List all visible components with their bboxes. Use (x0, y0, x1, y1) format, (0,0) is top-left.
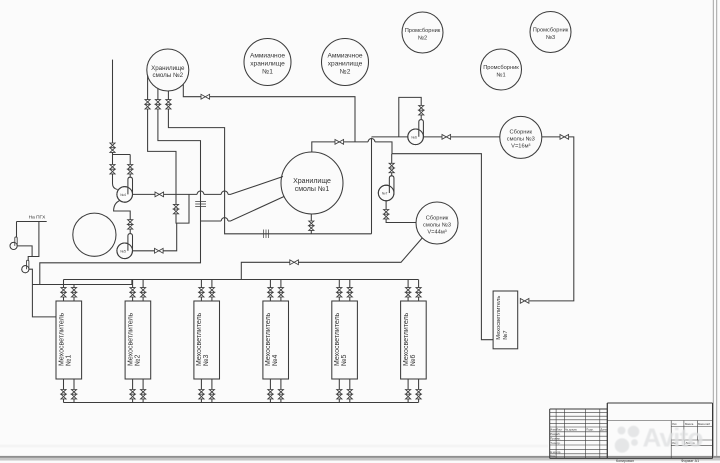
svg-text:Промсборник: Промсборник (405, 28, 441, 34)
valve M5 left bottom (337, 390, 342, 399)
valve on tank V16 outlet (560, 135, 569, 140)
wire: tank2 outlet to vertical x355 (210, 97, 355, 142)
svg-text:V=44м³: V=44м³ (427, 229, 446, 235)
apparatus Мехосветлитель №7 (493, 291, 518, 349)
svg-text:№1: №1 (496, 73, 505, 79)
valve M1 left bottom (61, 390, 66, 399)
wire: M5 left top column (338, 280, 340, 288)
wire: M3 right bottom to bus (211, 399, 213, 403)
wire: L2 horizontal to pump6 (372, 136, 408, 138)
wire: tank2 column2 (157, 89, 159, 100)
valve M1 right top (71, 288, 76, 297)
pump №6 (408, 120, 424, 145)
wire: pump7 discharge to tank V44 (386, 219, 416, 223)
wire: pump5 stem drop (129, 229, 131, 234)
wire: L2 vertical under hop (371, 138, 373, 234)
wire: M1 right top to rect (73, 297, 75, 301)
apparatus Мехосветлитель №1 (56, 301, 82, 379)
valve M1 right bottom (71, 390, 76, 399)
svg-text:№4: №4 (120, 193, 126, 197)
valve M1 left top (61, 288, 66, 297)
svg-text:№ докум.: № докум. (565, 428, 578, 432)
bus: upper distribution header (64, 279, 419, 281)
wire: tank1 top line to y153 (344, 139, 392, 154)
svg-text:Промсборник: Промсборник (533, 28, 569, 34)
valve M2 left top (130, 288, 135, 297)
bus: bottom collection header (64, 402, 419, 404)
wire: branch y221 to tank1 (201, 220, 222, 222)
valve on tank2 column1 (145, 100, 150, 109)
frame: bottom grey band (0, 445, 720, 461)
svg-text:№1: №1 (65, 354, 72, 366)
wire: M1 right bottom column (73, 379, 75, 390)
wire: M2 right top to rect (142, 297, 144, 301)
valve on tank1 bottom (309, 221, 314, 230)
wire: minipump2 discharge to rect1 (29, 269, 56, 317)
frame: right edge double line (713, 0, 716, 457)
svg-text:смолы №2: смолы №2 (153, 72, 184, 79)
wire: M6 left top column (407, 280, 409, 288)
wire: M3 right top to rect (211, 297, 213, 301)
wire: M6 right bottom to bus (418, 399, 420, 403)
wire: M4 left top column (269, 280, 271, 288)
wire: M6 left bottom column (407, 379, 409, 390)
wire: pump4 stem drop (129, 174, 131, 178)
svg-text:Провер.: Провер. (550, 437, 561, 441)
apparatus Мехосветлитель №6 (401, 301, 427, 379)
valve on pump4 stem suction (128, 165, 133, 174)
valve on tank1 top line (335, 140, 344, 145)
wire: M1 left bottom to bus (63, 399, 65, 403)
valve on pump6 suction (419, 106, 424, 115)
wire: M3 left bottom column (200, 379, 202, 390)
svg-text:смолы №3: смолы №3 (507, 137, 535, 143)
wire: drop to minipump2 (28, 222, 39, 262)
wire: pump4 discharge with hops to tank1 (164, 177, 283, 195)
wire: M3 left bottom to bus (200, 399, 202, 403)
valve on pump5 discharge (155, 248, 164, 253)
valve on tank2 column2 (155, 100, 160, 109)
wire: M1 left top to rect (63, 297, 65, 301)
wire: pump4 left suction drop (113, 174, 118, 190)
wire: M4 right top column (280, 280, 282, 288)
svg-text:№3: №3 (203, 354, 210, 366)
valve M3 left top (199, 288, 204, 297)
wire: down to M7 valve (530, 137, 574, 301)
wire: tank V44 outlet diagonal (298, 238, 422, 262)
valve on pump7 suction (389, 163, 394, 172)
wire: M6 right top column (418, 280, 420, 288)
mini pump 1 (10, 237, 17, 250)
wire: M3 right top column (211, 280, 213, 288)
wire: M4 left bottom column (269, 379, 271, 390)
svg-text:Разраб.: Разраб. (550, 432, 560, 436)
svg-text:Мехосветлитель: Мехосветлитель (403, 312, 410, 366)
valve on pump7 discharge (384, 210, 389, 219)
wire: pump7 stem drop (391, 173, 393, 176)
wire: pump5 discharge riser (163, 223, 177, 251)
valve M5 left top (337, 288, 342, 297)
valve on pump4 left suction (110, 165, 115, 174)
wire: pump4 stem branch (129, 155, 131, 165)
pump №5 (117, 234, 133, 259)
wire: M6 right top to rect (418, 297, 420, 301)
svg-text:смолы №1: смолы №1 (295, 186, 330, 193)
wire: M2 right bottom to bus (142, 399, 144, 403)
tank: Промсборник №3 (530, 12, 571, 53)
wire: pump6 discharge to tank V16 (451, 136, 500, 138)
valve M2 right bottom (141, 390, 146, 399)
svg-text:Сборник: Сборник (426, 215, 449, 221)
wire: M6 left top to rect (407, 297, 409, 301)
wire: M6 left bottom to bus (407, 399, 409, 403)
wire: M4 left bottom to bus (269, 399, 271, 403)
valve M3 left bottom (199, 390, 204, 399)
wire: M5 right bottom to bus (349, 399, 351, 403)
valve M5 right top (347, 288, 352, 297)
svg-text:смолы №3: смолы №3 (423, 222, 451, 228)
wire: tank2 column1 (147, 76, 149, 100)
wire: M5 right bottom column (349, 379, 351, 390)
svg-text:Мехосветлитель: Мехосветлитель (196, 312, 203, 366)
svg-text:Сборник: Сборник (510, 130, 533, 136)
valve M2 right top (141, 288, 146, 297)
tank: Сборник смолы №3 V=16м3 (500, 116, 542, 158)
wire: minipump1 discharge (17, 246, 32, 257)
svg-text:Мехосветлитель: Мехосветлитель (496, 296, 502, 340)
svg-text:№4: №4 (272, 354, 279, 366)
valve M4 left top (268, 288, 273, 297)
wire: M4 left top to rect (269, 297, 271, 301)
tank: Сборник смолы №3 V=44м3 (416, 202, 458, 244)
svg-text:Мехосветлитель: Мехосветлитель (58, 312, 65, 366)
wire: M2 left bottom column (132, 379, 134, 390)
wire: M6 right bottom column (418, 379, 420, 390)
valve M2 left bottom (130, 390, 135, 399)
flow meter ticks on bottom header (264, 230, 269, 239)
apparatus Мехосветлитель №3 (194, 301, 220, 379)
valve at M7 inlet (520, 299, 529, 304)
wire: tank2 column1 to vertical (148, 109, 176, 204)
svg-text:Аммиачное: Аммиачное (250, 53, 285, 60)
wire: vertical x176 to corner (176, 194, 189, 223)
wire: M3 right bottom column (211, 379, 213, 390)
svg-text:№5: №5 (341, 354, 348, 366)
wire: split header (113, 154, 131, 156)
wire: M3 left top column (200, 280, 202, 288)
svg-text:№5: №5 (120, 249, 126, 253)
svg-text:№6: №6 (411, 135, 417, 139)
mini pump 2 (22, 260, 29, 273)
valve on pump5 suction (128, 220, 133, 229)
wire: M4 right bottom column (280, 379, 282, 390)
wire: tank1 top stub (312, 142, 335, 152)
valve M6 right top (416, 288, 421, 297)
svg-text:№2: №2 (134, 354, 141, 366)
wire: M3 left top to rect (200, 297, 202, 301)
bus: lower distribution header (32, 280, 131, 285)
svg-text:Дата: Дата (600, 428, 607, 432)
svg-text:Изм.Лист: Изм.Лист (550, 428, 563, 432)
svg-text:№3: №3 (546, 35, 555, 41)
svg-text:№2: №2 (340, 69, 351, 76)
wire: drop to minipump1 (16, 222, 18, 239)
pump №7 (378, 176, 394, 201)
tank: unnamed (73, 213, 116, 256)
tank: Аммиачное хранилище №2 (322, 39, 369, 86)
wire: M2 left bottom to bus (132, 399, 134, 403)
svg-text:Аммиачное: Аммиачное (327, 53, 362, 60)
svg-text:№7: №7 (503, 330, 509, 339)
valve on tank2 right outlet (201, 94, 210, 99)
wire: M2 right bottom column (142, 379, 144, 390)
svg-text:Копировал: Копировал (616, 459, 634, 463)
svg-text:хранилище: хранилище (328, 61, 363, 68)
pipe joint symbol on vertical2 (195, 202, 206, 207)
wire: pump7 suction drop (391, 154, 393, 164)
wire: pump5 discharge (133, 250, 155, 252)
wire: y153 header to M7 (392, 154, 493, 340)
pump №4 (117, 177, 133, 202)
tank: Хранилище смолы №2 (147, 49, 189, 91)
valve M6 left bottom (406, 390, 411, 399)
tank: Промсборник №1 (481, 49, 522, 90)
svg-text:Промсборник: Промсборник (483, 65, 519, 71)
wire: pump6 suction loop (399, 97, 421, 136)
valve M4 left bottom (268, 390, 273, 399)
valve on feed stub (110, 143, 115, 152)
wire: branch y221 hop and diagonal (221, 197, 284, 222)
wire: M2 right top column (142, 280, 144, 288)
svg-text:Мехосветлитель: Мехосветлитель (127, 312, 134, 366)
valve on tank2 column3 (166, 100, 171, 109)
svg-text:Avito: Avito (643, 423, 703, 453)
wire: M4 right bottom to bus (280, 399, 282, 403)
wire: M5 right top to rect (349, 297, 351, 301)
wire: tank2 right outlet (183, 84, 201, 96)
wire: tank1 bottom to header (310, 230, 312, 233)
svg-text:Мехосветлитель: Мехосветлитель (334, 312, 341, 366)
wire: M5 left bottom column (338, 379, 340, 390)
valve M6 left top (406, 288, 411, 297)
wire: M5 left top to rect (338, 297, 340, 301)
valve M4 right bottom (278, 390, 283, 399)
svg-text:Подп.: Подп. (586, 428, 594, 432)
tank: Промсборник №2 (402, 12, 443, 53)
svg-text:Т.контр.: Т.контр. (550, 441, 560, 445)
wire: pump7 discharge down (385, 201, 387, 210)
svg-text:Мехосветлитель: Мехосветлитель (265, 312, 272, 366)
svg-text:Утв.: Утв. (550, 454, 556, 458)
svg-text:№1: №1 (262, 69, 273, 76)
svg-text:Н.контр.: Н.контр. (550, 450, 561, 454)
valve M5 right bottom (347, 390, 352, 399)
wire: M1 right top column (73, 285, 75, 288)
valve on V44 outlet line (290, 260, 299, 265)
valve M6 right bottom (416, 390, 421, 399)
svg-text:Формат А1: Формат А1 (681, 459, 699, 463)
wire: tank V16 right outlet (542, 136, 560, 138)
valve M3 right bottom (209, 390, 214, 399)
apparatus Мехосветлитель №4 (263, 301, 289, 379)
svg-text:Хранилище: Хранилище (151, 65, 185, 72)
wire: feed stub to pump line (112, 60, 114, 143)
wire: M5 left bottom to bus (338, 399, 340, 403)
svg-text:V=16м³: V=16м³ (511, 144, 530, 150)
wire: pump4 discharge (133, 193, 156, 195)
valve on vertical riser x176 (173, 204, 178, 213)
svg-text:На ПГХ: На ПГХ (29, 214, 47, 220)
apparatus Мехосветлитель №2 (125, 301, 151, 379)
svg-text:№7: №7 (382, 192, 388, 196)
wire: feed stub below valve (112, 152, 114, 164)
tank: Хранилище смолы №1 (281, 152, 343, 214)
svg-text:№2: №2 (418, 36, 427, 42)
wire: M1 left top column (63, 280, 65, 288)
wire: M2 left top column (132, 280, 134, 288)
wire: M1 right bottom to bus (73, 399, 75, 403)
wire: tank2 column3 to vertical3 (168, 109, 371, 234)
wire: M5 right top column (349, 280, 351, 288)
valve M3 right top (209, 288, 214, 297)
title block (550, 403, 713, 458)
apparatus Мехосветлитель №5 (332, 301, 358, 379)
wire: tank2 column3 (167, 91, 169, 100)
wire: pump6 discharge (423, 136, 442, 138)
wire: M2 left top to rect (132, 297, 134, 301)
valve M4 right top (278, 288, 283, 297)
svg-text:хранилище: хранилище (250, 61, 285, 68)
wire: na PGH header (17, 221, 47, 223)
wire: V44 line to bus riser (241, 262, 289, 279)
wire: tank2 column2 to vertical2 (40, 109, 201, 285)
valve on pump4 discharge (155, 192, 164, 197)
wire: tank1 bottom stub (310, 214, 312, 221)
wire: pump4 to pump5 suction (114, 201, 131, 220)
wire: pump6 stem drop (420, 115, 422, 120)
wire: M4 right top to rect (280, 297, 282, 301)
svg-text:№6: №6 (410, 354, 417, 366)
valve on pump6 discharge (442, 135, 451, 140)
tank: Аммиачное хранилище №1 (244, 39, 291, 86)
svg-text:Хранилище: Хранилище (293, 178, 331, 185)
wire: M1 left bottom column (63, 379, 65, 390)
